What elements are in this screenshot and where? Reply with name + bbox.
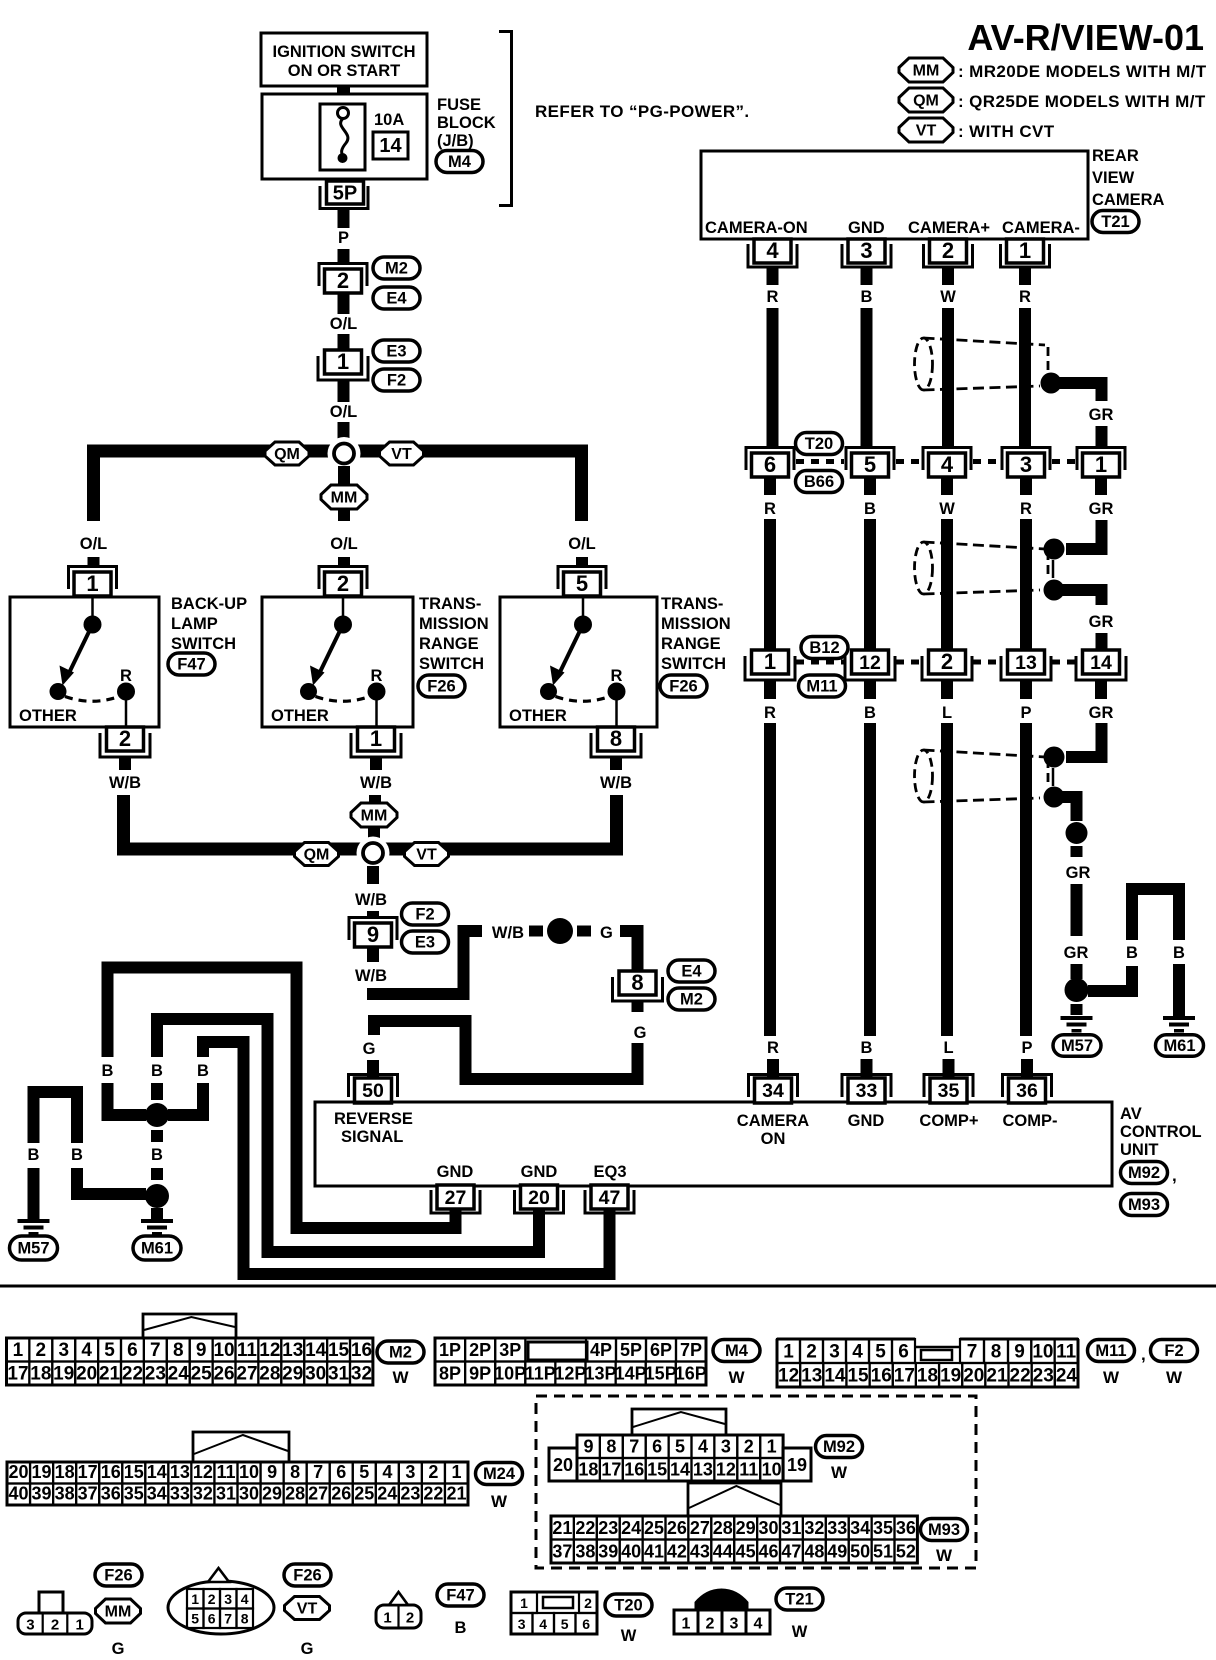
svg-text:14: 14: [824, 1366, 846, 1387]
B dash 2: [151, 1168, 163, 1180]
svg-text:38: 38: [55, 1484, 75, 1504]
svg-text:45: 45: [736, 1542, 756, 1562]
svg-text:13: 13: [801, 1366, 822, 1387]
svg-text:W/B: W/B: [355, 967, 387, 985]
camera pin 2: [924, 238, 973, 267]
svg-text:M2: M2: [680, 991, 703, 1009]
svg-text:1: 1: [783, 1342, 794, 1363]
svg-text:9: 9: [583, 1437, 593, 1457]
svg-text:F2: F2: [1164, 1342, 1183, 1360]
svg-text:11: 11: [216, 1462, 235, 1482]
svg-text:1: 1: [1095, 452, 1107, 477]
svg-text:3: 3: [224, 1591, 232, 1607]
fuse block J/B box M4: [262, 94, 427, 179]
svg-text:1: 1: [13, 1340, 24, 1361]
connector ref E3: [373, 340, 420, 362]
svg-text:3: 3: [730, 1616, 739, 1633]
svg-text:33: 33: [856, 1080, 878, 1102]
label G before 50: [363, 1040, 376, 1058]
svg-text:28: 28: [285, 1484, 305, 1504]
connector ref M92: [1121, 1162, 1177, 1186]
wire stub to connector 50: [367, 1060, 379, 1080]
label P: [338, 229, 349, 247]
wire B to ground: [1173, 964, 1185, 1016]
svg-text:51: 51: [873, 1542, 893, 1562]
svg-text:5P: 5P: [333, 183, 357, 205]
connector ref F26: [418, 675, 465, 697]
connector ref T21: [1092, 211, 1139, 233]
svg-text:ON: ON: [761, 1130, 786, 1148]
connector 8 (E4/M2): [613, 970, 663, 1001]
svg-text:16: 16: [871, 1366, 892, 1387]
dashed group box M92/M93: [536, 1396, 976, 1568]
svg-text:12: 12: [259, 1340, 280, 1361]
MM tag lower: [351, 803, 397, 827]
connector view M4: [435, 1338, 707, 1385]
svg-text:28: 28: [259, 1364, 280, 1385]
wire row2 to row3: [941, 519, 953, 652]
svg-text:6: 6: [208, 1611, 216, 1627]
svg-text:R: R: [371, 667, 383, 685]
MM tag bottom: [96, 1599, 141, 1623]
svg-text:F26: F26: [293, 1567, 321, 1585]
svg-text:36: 36: [896, 1518, 916, 1538]
svg-text:2: 2: [942, 238, 954, 263]
wire below connector 9: [367, 946, 379, 962]
svg-text:14P: 14P: [615, 1364, 647, 1384]
camera pin 4: [748, 238, 797, 267]
connector 47 eq3: [585, 1185, 634, 1213]
svg-text:QM: QM: [274, 446, 300, 463]
wire row3 L stub: [941, 681, 953, 699]
svg-text:REVERSE: REVERSE: [334, 1110, 413, 1128]
label W camera: [940, 288, 956, 306]
svg-text:20: 20: [9, 1462, 29, 1482]
svg-text:10: 10: [1032, 1342, 1053, 1363]
svg-text:10: 10: [213, 1340, 234, 1361]
svg-text:F2: F2: [387, 372, 406, 390]
svg-text:AV-R/VIEW-01: AV-R/VIEW-01: [967, 17, 1204, 58]
connector ref F47: [168, 653, 215, 675]
svg-text:8: 8: [241, 1611, 249, 1627]
connector ref E4 2: [668, 960, 715, 982]
svg-text:7: 7: [224, 1611, 232, 1627]
label W/B 1: [109, 774, 141, 792]
wire camera R run: [1019, 308, 1031, 448]
svg-text:W: W: [1166, 1368, 1183, 1387]
svg-text:6: 6: [764, 452, 776, 477]
svg-text:27: 27: [445, 1187, 467, 1209]
connector 5 trans range switch 2: [558, 567, 606, 597]
refer note: [535, 102, 750, 121]
wire row3 R stub: [764, 681, 776, 699]
connector ref F26 2: [660, 675, 707, 697]
connector 35 comp+: [924, 1075, 973, 1104]
svg-text:F47: F47: [177, 656, 205, 674]
svg-text:4: 4: [81, 1340, 92, 1361]
wire below connector 8: [632, 1001, 644, 1012]
gnd label bottom 1: [437, 1163, 474, 1181]
wire B net 2: [157, 1019, 539, 1252]
harness link row3 d: [1052, 660, 1075, 665]
svg-text:23: 23: [1033, 1366, 1054, 1387]
svg-text:CONTROL: CONTROL: [1120, 1123, 1202, 1141]
svg-text:VT: VT: [416, 847, 437, 864]
wire row3 to AV: [764, 723, 776, 1036]
svg-text:4: 4: [698, 1437, 708, 1457]
svg-text:T21: T21: [785, 1591, 813, 1609]
svg-text:1: 1: [520, 1595, 528, 1611]
fuse 10A #14: [320, 104, 408, 170]
svg-text:40: 40: [9, 1484, 29, 1504]
connector ref M11: [799, 675, 846, 697]
label L above AV: [943, 1039, 953, 1057]
svg-text:25: 25: [191, 1364, 213, 1385]
svg-text:B: B: [1173, 944, 1185, 962]
svg-text:UNIT: UNIT: [1120, 1141, 1159, 1159]
harness link row3 a: [796, 660, 844, 665]
ground symbol M61: [141, 1219, 173, 1236]
connector 12 row3: [845, 650, 895, 680]
wire O/L segment 3: [338, 381, 350, 402]
connector view T21: [674, 1589, 770, 1635]
svg-text:(J/B): (J/B): [437, 132, 474, 150]
svg-text:SWITCH: SWITCH: [419, 655, 484, 673]
svg-text:1: 1: [767, 1437, 777, 1457]
svg-text:M61: M61: [1163, 1037, 1195, 1055]
svg-text:G: G: [634, 1024, 647, 1042]
svg-text:1: 1: [337, 349, 349, 374]
svg-text:22: 22: [575, 1518, 595, 1538]
svg-text:12: 12: [859, 652, 881, 674]
svg-text:1: 1: [682, 1616, 691, 1633]
svg-text:26: 26: [331, 1484, 351, 1504]
transmission range switch label: [419, 595, 489, 673]
svg-text:6: 6: [582, 1616, 590, 1632]
refer bracket: [499, 32, 512, 206]
svg-text:5: 5: [561, 1616, 569, 1632]
label B bottom: [455, 1619, 467, 1637]
svg-text:GR: GR: [1089, 704, 1114, 722]
svg-text:M57: M57: [1061, 1037, 1093, 1055]
svg-text:8: 8: [631, 970, 643, 995]
svg-text:O/L: O/L: [330, 403, 358, 421]
wire row2 R stub: [764, 478, 776, 495]
legend QM symbol: [899, 88, 1206, 112]
connector view T20: [511, 1592, 597, 1634]
transmission range switch box 2: [500, 597, 657, 727]
svg-text:E4: E4: [681, 963, 702, 981]
svg-text:W/B: W/B: [600, 774, 632, 792]
svg-text:CAMERA-: CAMERA-: [1002, 219, 1080, 237]
svg-text:11: 11: [1056, 1342, 1077, 1363]
connector ref M2: [373, 257, 420, 279]
connector view M93: [551, 1483, 917, 1563]
svg-text:41: 41: [644, 1542, 664, 1562]
svg-text:48: 48: [804, 1542, 824, 1562]
svg-text:5: 5: [864, 452, 876, 477]
connector 1 (B12/M11): [745, 649, 795, 680]
label B above AV: [861, 1039, 873, 1057]
label G below 8: [634, 1024, 647, 1042]
svg-text:1: 1: [764, 649, 776, 674]
ground symbol M57 right: [1061, 1016, 1093, 1033]
ground symbol M57: [18, 1219, 50, 1236]
back-up lamp switch F47 box: [10, 597, 159, 727]
svg-text:O/L: O/L: [330, 535, 358, 553]
svg-text:B: B: [864, 704, 876, 722]
connector view M24: [7, 1432, 468, 1505]
VT tag lower: [405, 843, 449, 866]
svg-text:W: W: [491, 1492, 508, 1511]
shield tube 3: [915, 750, 1049, 802]
svg-text:3: 3: [405, 1462, 415, 1482]
svg-text:B: B: [1126, 944, 1138, 962]
svg-text:R: R: [120, 667, 132, 685]
connector view T21 ref: [776, 1588, 823, 1610]
svg-text:W: W: [1103, 1368, 1120, 1387]
label W/B 2: [360, 774, 392, 792]
label R below row2: [1020, 500, 1032, 518]
svg-text:6: 6: [336, 1462, 346, 1482]
connector 50 reverse signal: [349, 1075, 398, 1104]
svg-text:5: 5: [576, 571, 588, 596]
shield dot 3a: [1044, 747, 1065, 768]
label O/L left: [80, 535, 108, 553]
wire row2 GR stub: [1095, 478, 1107, 495]
svg-text:R: R: [1019, 288, 1031, 306]
ground symbol M61 right: [1163, 1016, 1195, 1033]
svg-text:21: 21: [986, 1366, 1008, 1387]
svg-text:1: 1: [76, 1617, 84, 1634]
connector view M2: [7, 1314, 373, 1385]
svg-text:16: 16: [624, 1460, 644, 1480]
svg-text:31: 31: [328, 1364, 350, 1385]
legend VT symbol: [899, 118, 1055, 142]
svg-text:17: 17: [894, 1366, 915, 1387]
wire B loop: [1088, 889, 1179, 991]
svg-text:9: 9: [267, 1462, 277, 1482]
svg-text:G: G: [600, 924, 613, 942]
ground ref M61: [133, 1236, 181, 1260]
wire W/B stub 3: [610, 757, 622, 770]
av control unit label: [1120, 1105, 1202, 1159]
camera pin 1: [1001, 238, 1050, 267]
wire to MM: [338, 466, 350, 486]
connector ref E3 2: [402, 931, 449, 953]
svg-text:12: 12: [778, 1366, 799, 1387]
svg-text:15P: 15P: [645, 1364, 677, 1384]
svg-text:MISSION: MISSION: [661, 615, 731, 633]
connector 5 row2: [846, 448, 894, 478]
svg-text:35: 35: [938, 1080, 960, 1102]
connector view M92 ref: [816, 1436, 863, 1483]
svg-text:E3: E3: [386, 343, 406, 361]
label B below row3: [864, 704, 876, 722]
label W/B 5: [355, 967, 387, 985]
svg-text:3: 3: [1020, 452, 1032, 477]
svg-text:34: 34: [762, 1080, 784, 1102]
svg-text:14: 14: [305, 1340, 327, 1361]
svg-text:1P: 1P: [439, 1340, 461, 1360]
transmission range switch 2 label: [661, 595, 731, 673]
svg-text:MM: MM: [913, 63, 940, 80]
connector ref B12: [801, 637, 848, 659]
gnd label bottom 2: [521, 1163, 558, 1181]
shield dot 2a: [1044, 539, 1065, 560]
harness link row3 c: [973, 660, 1000, 665]
svg-text:W: W: [940, 288, 956, 306]
fuse block label: [437, 96, 496, 150]
label B below row2: [864, 500, 876, 518]
svg-text:25: 25: [354, 1484, 374, 1504]
svg-text:B: B: [861, 288, 873, 306]
svg-text:SWITCH: SWITCH: [171, 635, 236, 653]
svg-text:2: 2: [51, 1617, 59, 1634]
harness link row2 b: [896, 459, 921, 464]
wire below node: [367, 866, 379, 884]
svg-text:COMP-: COMP-: [1003, 1112, 1058, 1130]
svg-text:CAMERA: CAMERA: [1092, 191, 1164, 209]
svg-text:12P: 12P: [554, 1364, 586, 1384]
connector view F26 ref: [95, 1564, 142, 1586]
label R camera: [767, 288, 779, 306]
connector view M11/F2 refs: [1088, 1340, 1198, 1388]
svg-text:6: 6: [898, 1342, 909, 1363]
svg-text:FUSE: FUSE: [437, 96, 481, 114]
label G bottom 1: [112, 1640, 125, 1658]
connector view F26/VT: [168, 1568, 274, 1634]
svg-text:36: 36: [1016, 1080, 1038, 1102]
svg-text:50: 50: [850, 1542, 870, 1562]
svg-text:GND: GND: [848, 1112, 885, 1130]
GR dash: [1071, 846, 1083, 857]
connector 33 gnd: [842, 1075, 891, 1104]
svg-text:GR: GR: [1089, 613, 1114, 631]
reverse signal label: [334, 1110, 413, 1146]
svg-text:M2: M2: [389, 1344, 412, 1362]
svg-text:19: 19: [53, 1364, 74, 1385]
svg-text:GND: GND: [521, 1163, 558, 1181]
label W/B splice: [492, 924, 524, 942]
svg-text:2: 2: [744, 1437, 754, 1457]
svg-text:34: 34: [850, 1518, 870, 1538]
label O/L middle: [330, 535, 358, 553]
svg-text:7: 7: [967, 1342, 978, 1363]
svg-text:2: 2: [406, 1610, 414, 1627]
wire stub to connector 9: [367, 911, 379, 918]
svg-text:O/L: O/L: [330, 315, 358, 333]
shield tube 2: [915, 542, 1049, 594]
svg-text:6: 6: [652, 1437, 662, 1457]
svg-text:4: 4: [241, 1591, 249, 1607]
GR dash 2: [1071, 1004, 1083, 1015]
svg-text:B: B: [861, 1039, 873, 1057]
svg-text:2: 2: [36, 1340, 47, 1361]
svg-text:30: 30: [305, 1364, 326, 1385]
svg-text:7P: 7P: [680, 1340, 702, 1360]
connector 5P: [320, 181, 368, 209]
svg-text:25: 25: [644, 1518, 664, 1538]
label G bottom 2: [301, 1640, 314, 1658]
svg-text:REAR: REAR: [1092, 147, 1139, 165]
svg-text:B: B: [197, 1062, 209, 1080]
svg-text:46: 46: [759, 1542, 779, 1562]
wire B net 1 tail: [108, 1083, 147, 1115]
svg-text:50: 50: [362, 1080, 384, 1102]
harness link row2 c: [973, 459, 1000, 464]
svg-text:3: 3: [721, 1437, 731, 1457]
svg-text:M11: M11: [1095, 1342, 1126, 1360]
svg-text:18: 18: [55, 1462, 75, 1482]
shield dot 3b: [1044, 787, 1065, 808]
svg-text:29: 29: [736, 1518, 756, 1538]
junction node upper: [328, 437, 361, 470]
svg-text:VT: VT: [916, 123, 937, 140]
wire W/B bus: [124, 795, 617, 849]
svg-text:18: 18: [917, 1366, 938, 1387]
svg-text:16: 16: [101, 1462, 121, 1482]
svg-text:23: 23: [145, 1364, 166, 1385]
svg-text:RANGE: RANGE: [419, 635, 479, 653]
wire G return path: [374, 1021, 638, 1079]
svg-text:BLOCK: BLOCK: [437, 114, 496, 132]
svg-text:5: 5: [875, 1342, 886, 1363]
wire L stub AV: [943, 1059, 955, 1078]
label GR below row2: [1089, 500, 1114, 518]
svg-text:10: 10: [239, 1462, 259, 1482]
svg-text:39: 39: [598, 1542, 618, 1562]
svg-text:52: 52: [896, 1542, 916, 1562]
svg-text:1: 1: [1019, 238, 1031, 263]
svg-text:31: 31: [781, 1518, 801, 1538]
wire stub switch3: [576, 557, 588, 567]
wire W/B stub 1: [119, 757, 131, 770]
svg-text:R: R: [611, 667, 623, 685]
svg-text:47: 47: [781, 1542, 801, 1562]
ground ref M61 right: [1156, 1035, 1204, 1057]
svg-text:13P: 13P: [584, 1364, 616, 1384]
wire row2 W stub: [941, 478, 953, 495]
label W bottom T21: [792, 1623, 808, 1641]
connector ref T20: [796, 433, 843, 455]
connector 2 (M2/E4): [319, 264, 367, 294]
svg-text:9P: 9P: [469, 1364, 491, 1384]
svg-text:9: 9: [367, 922, 379, 947]
svg-text:W: W: [936, 1546, 953, 1565]
wire GR to shield 2: [1066, 520, 1102, 549]
transmission range switch box: [262, 597, 413, 727]
wire GR run: [1071, 884, 1083, 936]
connector 14 row3: [1076, 650, 1126, 680]
wire B to ground M61: [151, 1208, 163, 1219]
label O/L: [330, 315, 358, 333]
svg-text:24: 24: [168, 1364, 190, 1385]
svg-text:M4: M4: [448, 153, 472, 171]
svg-text:37: 37: [78, 1484, 98, 1504]
svg-text:8: 8: [173, 1340, 184, 1361]
ground ref M57 right: [1053, 1035, 1101, 1057]
svg-text:4: 4: [941, 452, 954, 477]
svg-text:1: 1: [451, 1462, 461, 1482]
svg-text:23: 23: [598, 1518, 618, 1538]
svg-text:3: 3: [518, 1616, 526, 1632]
svg-text:4: 4: [766, 238, 779, 263]
svg-text:19: 19: [940, 1366, 961, 1387]
svg-text:15: 15: [647, 1460, 667, 1480]
splice joint dot: [547, 918, 573, 944]
camera on label: [737, 1112, 809, 1148]
